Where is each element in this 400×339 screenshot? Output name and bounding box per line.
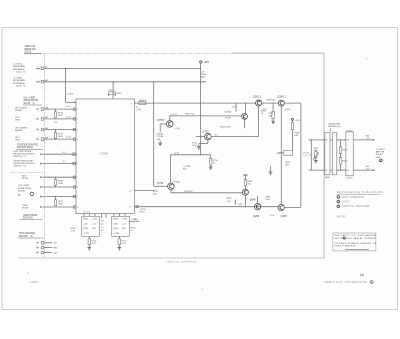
svg-text:750K: 750K (58, 183, 63, 185)
U760 left pin squares (73, 108, 75, 208)
transistor Q282 (253, 95, 267, 110)
svg-text:R760A: R760A (173, 180, 180, 183)
svg-text:47K: 47K (122, 228, 126, 230)
svg-text:C758A: C758A (156, 135, 163, 138)
svg-text:4.7K: 4.7K (122, 243, 127, 245)
wire Q757 base network (156, 124, 166, 141)
svg-text:DELAY LINE: DELAY LINE (328, 123, 340, 126)
input row pin 1 (15, 106, 76, 112)
svg-text:R287 A2: R287 A2 (267, 99, 276, 102)
svg-text:J1011 〈1〉: J1011 〈1〉 (16, 85, 27, 88)
capacitor C647 tap (227, 198, 237, 205)
svg-text:INVERT: INVERT (15, 130, 23, 132)
svg-text:PARTS MARKED: PARTS MARKED (335, 245, 357, 248)
resistor R760 with +15V terminal above U760 (108, 90, 123, 103)
svg-text:Q282 2: Q282 2 (253, 95, 262, 98)
svg-text:+: + (366, 57, 368, 61)
wire U760 pin 8 lower rail to Q268/Q448 (131, 206, 279, 232)
wire output bus bracket (309, 139, 325, 171)
svg-text:SEE PARTS LIST FOR EARLIER: SEE PARTS LIST FOR EARLIER (335, 234, 377, 237)
connector label (wire 2) (13, 77, 27, 88)
network box (right bias cluster) (112, 216, 130, 236)
svg-text:P951: P951 (303, 155, 309, 157)
svg-text:FROM MAIN: FROM MAIN (13, 65, 25, 68)
wire coupling bottom (337, 169, 346, 170)
svg-text:VERTICAL AMPLIFIER: VERTICAL AMPLIFIER (342, 205, 370, 208)
input row pin 5 (14, 151, 77, 158)
IC U760 (vertical channel switch) (76, 99, 134, 214)
svg-text:(-1.4): (-1.4) (136, 109, 141, 111)
svg-text:SWITCH 〈1〉: SWITCH 〈1〉 (14, 155, 28, 158)
resistor R756 and ground (209, 155, 219, 170)
svg-text:+24V: +24V (237, 204, 243, 206)
svg-text:47K: 47K (92, 228, 96, 230)
svg-text:-15V: -15V (53, 252, 58, 254)
transistor Q759 (153, 180, 180, 195)
svg-text:R758 1K: R758 1K (185, 191, 194, 193)
separator (10, 172, 44, 174)
svg-text:TRIG: TRIG (15, 140, 20, 142)
resistor R648 to supply (243, 175, 253, 186)
svg-text:R672: R672 (342, 150, 348, 152)
svg-text:U760F: U760F (100, 152, 109, 156)
input row pin 4 (15, 136, 76, 141)
svg-text:GND: GND (53, 247, 58, 249)
label from mode driver with arrow (303, 152, 311, 157)
svg-text:(-7.5): (-7.5) (65, 106, 70, 108)
svg-text:Q284 2: Q284 2 (277, 95, 286, 98)
wire output top with arrow (353, 136, 375, 142)
svg-text:J1011 〈1〉: J1011 〈1〉 (16, 71, 27, 74)
svg-text:S1010): S1010) (18, 190, 25, 192)
legend item 1 (337, 196, 364, 199)
svg-text:R750 750: R750 750 (185, 113, 195, 115)
input row pin 8 (18, 185, 76, 195)
wire 1 (+5V line to +20V rail) (37, 66, 202, 70)
spare connector row 2 (37, 246, 59, 249)
svg-text:0.5mV: 0.5mV (67, 94, 74, 96)
svg-text:INVERT: INVERT (15, 110, 23, 112)
svg-text:1.8K: 1.8K (265, 199, 270, 201)
potentiometer R314 with ground (313, 147, 319, 163)
svg-text:TRIG: TRIG (15, 119, 20, 121)
svg-text:C754: C754 (192, 145, 198, 147)
node +20V terminal (200, 61, 210, 64)
svg-text:2A: 2A (360, 273, 365, 277)
svg-text:Q759: Q759 (157, 182, 164, 185)
svg-text:C730: C730 (92, 219, 98, 221)
transistor Q284 (277, 95, 290, 110)
svg-text:4: 4 (77, 139, 78, 141)
svg-text:R758A: R758A (156, 133, 163, 136)
svg-text:11: 11 (129, 207, 131, 209)
resistor R752 and ground (118, 236, 128, 250)
svg-text:SWITCH 〈1〉: SWITCH 〈1〉 (14, 165, 28, 168)
svg-text:R750: R750 (140, 212, 146, 214)
resistor R754 and ground below Q753 (192, 140, 208, 149)
resistor R747 divider (54, 197, 64, 206)
svg-text:R244 16.9K: R244 16.9K (220, 126, 232, 128)
svg-text:Q753: Q753 (202, 131, 209, 134)
svg-text:Q268: Q268 (253, 215, 260, 218)
svg-text:DC: DC (233, 106, 237, 108)
wire Q282 collector drop to Q753 base (258, 106, 260, 137)
svg-text:SWITCH): SWITCH) (23, 217, 33, 219)
U760 pin numbers (77, 103, 132, 213)
svg-text:SWITCH S1011: SWITCH S1011 (17, 147, 34, 149)
svg-text:+5 V (AC): +5 V (AC) (13, 77, 22, 80)
wire U760 pin 9 stub (134, 190, 154, 191)
labels between clusters (101, 221, 105, 233)
wire Q284 collector to right bus (284, 103, 301, 208)
svg-text:10: 10 (77, 207, 79, 209)
left group heading (vert mode switch lower) (20, 215, 43, 220)
resistor R268 (258, 196, 272, 203)
input row pin 10 (22, 205, 76, 210)
svg-text:5: 5 (77, 154, 78, 156)
relay box K288 (276, 151, 292, 167)
svg-text:16: 16 (130, 103, 132, 105)
wire Q759 emitter line to Q648 (171, 190, 243, 193)
svg-text:MDB: MDB (325, 177, 330, 179)
svg-text:4.7K: 4.7K (71, 230, 76, 232)
svg-text:6: 6 (77, 164, 78, 166)
resistor R751 and ground (88, 236, 98, 250)
legend item 3 (337, 205, 370, 208)
transistor Q753 (202, 131, 218, 140)
label delay line driver (328, 123, 341, 132)
svg-text:750K: 750K (58, 115, 63, 117)
resistor R743 divider (54, 130, 63, 139)
svg-text:+20V: +20V (203, 61, 209, 64)
wire 2 (signal to Q759 base rail) (37, 71, 207, 186)
transistor Q245 (220, 102, 248, 128)
resistor R285 to ground (261, 102, 275, 123)
svg-text:R734: R734 (113, 228, 119, 230)
input row pin 3 (15, 127, 76, 132)
svg-text:AMP VIA: AMP VIA (376, 151, 385, 154)
wire Q753 base from Q282 collector drop (196, 136, 259, 138)
svg-text:3: 3 (77, 129, 78, 131)
svg-text:NOTE:: NOTE: (337, 214, 347, 218)
input row pin 7 (22, 174, 76, 180)
svg-text:4.7K: 4.7K (92, 243, 97, 245)
title VERTICAL INTERFACE (324, 280, 373, 284)
svg-text:R245A: R245A (225, 110, 232, 113)
labels left of cluster (71, 228, 77, 233)
svg-text:DL670: DL670 (346, 177, 353, 179)
wire emitter line y116 to Q245 (169, 113, 242, 120)
box attenuator section 2 (330, 133, 337, 175)
transistor Q268 (253, 204, 261, 219)
left group heading (trigger source switch) (17, 145, 44, 150)
svg-text:(-5.2): (-5.2) (172, 114, 177, 116)
spare connector row 1 (37, 242, 58, 245)
input row pin 6 (14, 160, 77, 167)
svg-text:(+15): (+15) (175, 128, 180, 130)
svg-text:VERTICAL INTERFACE: VERTICAL INTERFACE (324, 280, 367, 284)
svg-text:MAIN INTERFACE: MAIN INTERFACE (342, 196, 365, 199)
svg-text:+5V: +5V (53, 243, 57, 245)
resistor R286 between pair (257, 99, 279, 104)
transistor Q757 (157, 119, 180, 130)
transistor Q448 (278, 204, 287, 218)
svg-text:VALUES AND SERIAL NUMBER: VALUES AND SERIAL NUMBER (335, 237, 376, 240)
svg-text:+: + (201, 287, 203, 291)
svg-text:16.9K: 16.9K (225, 118, 231, 120)
left group heading (CH1 vert mode) (23, 98, 42, 105)
svg-text:2: 2 (77, 119, 78, 121)
svg-text:13 14 15: 13 14 15 (83, 211, 90, 213)
legend item 2 (337, 200, 350, 203)
svg-text:Q448: Q448 (280, 215, 287, 218)
svg-text:R733: R733 (113, 219, 119, 221)
svg-text:REFERENCE DIAGRAMS: REFERENCE DIAGRAMS (337, 190, 383, 194)
connector label (from main interface, wire 1) (13, 64, 27, 74)
svg-text:-C731: -C731 (83, 233, 90, 235)
svg-text:(-1.4): (-1.4) (66, 116, 71, 118)
svg-text:VERTICAL: VERTICAL (25, 45, 37, 48)
svg-text:DEC: DEC (285, 165, 290, 167)
label VERTICAL MODE SWITCH (24, 45, 42, 53)
svg-text:R286: R286 (257, 100, 263, 102)
svg-text:R760: R760 (116, 93, 122, 95)
input row pin 9 (18, 194, 76, 198)
svg-text:(-1.4): (-1.4) (174, 153, 179, 155)
svg-text:Q648: Q648 (249, 199, 256, 202)
resistor R741 divider (54, 109, 64, 125)
svg-text:1909: 1909 (30, 280, 38, 284)
svg-text:-C734: -C734 (113, 233, 120, 235)
box attenuator section 1 (325, 133, 330, 180)
potentiometer R245 wiper arrow (233, 102, 237, 111)
vertical mode switch boundary (dashed section border) (19, 53, 324, 258)
svg-text:+15V: +15V (295, 120, 301, 122)
resistor R288 from +15V terminal (291, 118, 300, 150)
svg-text:12: 12 (129, 191, 131, 193)
svg-text:FROM MAIN: FROM MAIN (13, 79, 25, 82)
input row pin 2 (15, 116, 76, 121)
svg-text:ADD: ADD (22, 174, 27, 177)
svg-text:750K: 750K (58, 203, 63, 205)
resistors R672 R674 between lines (339, 140, 348, 170)
svg-text:MODE: MODE (22, 178, 29, 180)
svg-text:+(C): +(C) (227, 201, 231, 203)
wire interstage line y155 (171, 153, 211, 183)
svg-text:7: 7 (77, 177, 78, 179)
svg-text:750K: 750K (58, 136, 63, 138)
svg-text:OF PART NUMBER RANGES OF: OF PART NUMBER RANGES OF (335, 242, 377, 245)
wire right of right cluster (129, 219, 139, 222)
wire Q284 emitter drop to Q448 (280, 106, 282, 204)
svg-text:INTERFACE: INTERFACE (13, 82, 25, 85)
svg-text:R029 50: R029 50 (139, 100, 148, 102)
wire U760 pin 16 output line to Q282/Q284 pair (134, 100, 255, 111)
svg-text:DEC: DEC (294, 135, 299, 137)
svg-text:-15V: -15V (270, 215, 275, 217)
note box (333, 233, 377, 251)
network box (left bias cluster) (82, 216, 100, 236)
svg-text:DRIVER (DL): DRIVER (DL) (328, 126, 341, 128)
svg-text:R730: R730 (83, 219, 89, 221)
label C758F (183, 166, 191, 171)
resistor R745 divider (54, 177, 64, 187)
svg-text:INTERFACE: INTERFACE (13, 68, 25, 71)
U760 bottom pin stubs (84, 214, 125, 219)
wire coupling top (337, 139, 346, 140)
svg-text:MODE: MODE (22, 208, 29, 210)
wire output bottom with arrow (353, 166, 375, 172)
legend reference diagrams (337, 190, 383, 194)
svg-text:LOGIC: LOGIC (342, 202, 350, 204)
wire +20V rail vertical (200, 63, 202, 155)
svg-text:DELAY: DELAY (376, 153, 383, 156)
svg-text:R731: R731 (83, 228, 89, 230)
svg-text:(AC): (AC) (201, 76, 206, 79)
svg-text:1: 1 (77, 109, 78, 111)
svg-text:Q757F: Q757F (157, 119, 165, 122)
svg-text:LINE: LINE (376, 157, 381, 159)
box delay line DL670 (346, 130, 353, 179)
svg-text:(4.6V): (4.6V) (285, 109, 291, 111)
svg-text:VERTICAL INTERFACE: VERTICAL INTERFACE (166, 261, 197, 264)
ground (Q757 base network) (158, 141, 162, 146)
label to vertical amplifier (376, 149, 386, 162)
svg-text:C733: C733 (122, 219, 128, 221)
spare connector row 3 (37, 251, 58, 254)
wire drop from +5V line into U760 top-left pin (66, 69, 76, 104)
ground (near R268 node) (269, 166, 273, 174)
svg-text:8: 8 (77, 187, 78, 189)
svg-text:R674: R674 (342, 160, 348, 162)
transistor Q648 (242, 186, 256, 207)
svg-text:9: 9 (77, 197, 78, 199)
left group heading (trig source switch lower) (19, 233, 45, 238)
svg-text:(-1.4): (-1.4) (66, 137, 71, 139)
